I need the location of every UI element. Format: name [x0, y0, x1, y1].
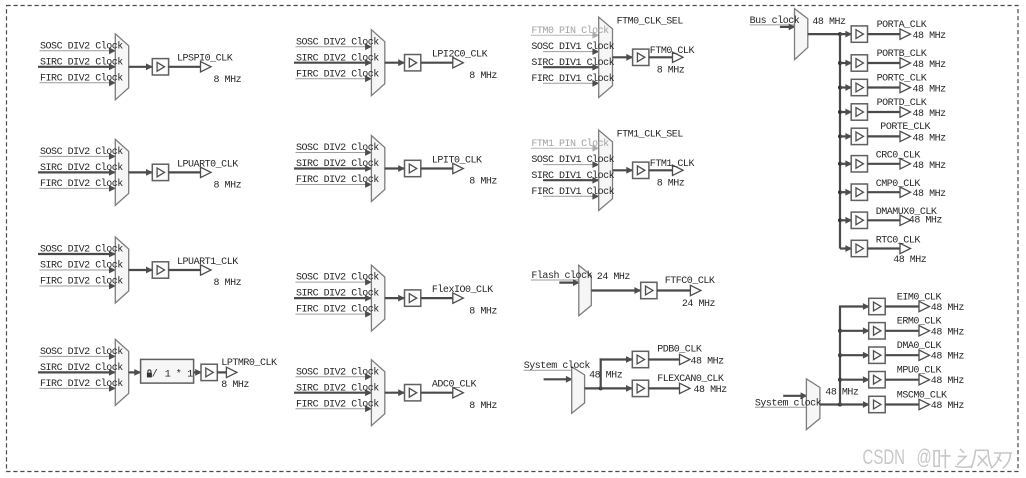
wire LPUART1_CLK gate output arrow [169, 265, 211, 275]
mux System clock distribution (bottom right) [806, 379, 820, 430]
svg-text:FIRC DIV2 Clock: FIRC DIV2 Clock [296, 398, 379, 410]
clock gate buffer of EIM0_CLK [869, 298, 886, 314]
net SIRC DIV1 Clock input wire of FTM1 mux [543, 177, 599, 184]
wire branch up to PDB0 [600, 356, 633, 389]
mux LPI2C0_CLK clock select [371, 30, 384, 96]
svg-text:48 MHz: 48 MHz [913, 133, 947, 144]
wire FlexIO0_CLK mux output to gate [385, 295, 405, 302]
svg-text:PDB0_CLK: PDB0_CLK [657, 345, 702, 356]
svg-text:PORTD_CLK: PORTD_CLK [877, 98, 927, 109]
svg-text:48 MHz: 48 MHz [913, 189, 947, 200]
junction bus rail / PORTB_CLK [838, 61, 842, 65]
wire LPIT0_CLK gate output arrow [421, 163, 464, 173]
net SIRC DIV2 Clock input wire of LPUART1_CLK mux [40, 267, 116, 274]
svg-text:48 MHz: 48 MHz [931, 376, 965, 387]
wire rail stub to CRC0_CLK gate [840, 160, 852, 167]
lock icon inside divider [147, 370, 152, 377]
net FIRC DIV2 Clock input wire of LPI2C0_CLK mux [296, 75, 372, 82]
junction bus rail / CMP0_CLK [838, 190, 842, 194]
svg-text:FIRC DIV2 Clock: FIRC DIV2 Clock [40, 276, 123, 288]
wire bus mux output to vertical rail [808, 33, 840, 35]
svg-text:48 MHz: 48 MHz [812, 17, 846, 28]
svg-text:SOSC DIV1 Clock: SOSC DIV1 Clock [531, 41, 614, 53]
junction bus rail / PORTC_CLK [838, 86, 842, 90]
net FIRC DIV2 Clock input wire of LPUART1_CLK mux [40, 283, 116, 290]
svg-text:SIRC DIV2 Clock: SIRC DIV2 Clock [296, 382, 379, 394]
svg-text:48 MHz: 48 MHz [913, 161, 947, 172]
junction system rail / MSCM0 [838, 403, 842, 407]
wire PORTD_CLK gate output arrow [868, 107, 911, 117]
net System clock input wire (bottom-right block) [755, 392, 808, 407]
svg-text:FIRC DIV1 Clock: FIRC DIV1 Clock [531, 186, 614, 198]
svg-text:48 MHz: 48 MHz [589, 370, 623, 381]
svg-text:PORTC_CLK: PORTC_CLK [877, 73, 927, 84]
svg-text:SIRC DIV2 Clock: SIRC DIV2 Clock [40, 260, 123, 272]
svg-text:8 MHz: 8 MHz [469, 71, 497, 82]
wire bus clock vertical rail [839, 34, 841, 248]
svg-text:Bus clock: Bus clock [750, 15, 800, 27]
clock gate buffer of DMAMUX0_CLK [851, 212, 867, 228]
svg-text:SOSC DIV2 Clock: SOSC DIV2 Clock [40, 146, 123, 158]
wire rail stub to PORTB_CLK gate [840, 60, 852, 67]
svg-text:FIRC DIV2 Clock: FIRC DIV2 Clock [40, 378, 123, 390]
wire PORTC_CLK gate output arrow [868, 82, 911, 92]
svg-text:48 MHz: 48 MHz [691, 356, 725, 367]
svg-text:48 MHz: 48 MHz [913, 60, 947, 71]
wire rail stub to PORTA_CLK gate [840, 31, 852, 38]
svg-text:SIRC DIV2 Clock: SIRC DIV2 Clock [40, 362, 123, 374]
clock gate buffer of CMP0_CLK [851, 184, 867, 200]
net SOSC DIV1 Clock input wire of FTM1 mux [543, 161, 599, 168]
svg-text:RTC0_CLK: RTC0_CLK [876, 236, 921, 247]
svg-text:SOSC DIV2 Clock: SOSC DIV2 Clock [40, 346, 123, 358]
svg-text:CSDN: CSDN [863, 444, 905, 468]
svg-text:PORTA_CLK: PORTA_CLK [877, 20, 927, 31]
svg-text:FTFC0_CLK: FTFC0_CLK [665, 276, 715, 287]
svg-text:LPI2C0_CLK: LPI2C0_CLK [432, 50, 488, 61]
wire EIM0_CLK gate output arrow [885, 301, 929, 311]
wire divider to LPTMR0 gate [194, 369, 202, 376]
svg-text:24 MHz: 24 MHz [682, 299, 716, 310]
svg-text:48 MHz: 48 MHz [931, 352, 965, 363]
net SOSC DIV2 Clock input wire of LPTMR0_CLK mux [40, 353, 116, 360]
wire LPSPI0_CLK mux output to gate [129, 63, 153, 70]
junction node system clock branch [599, 386, 603, 390]
clock gate buffer of RTC0_CLK [851, 240, 867, 256]
clock gate buffer of DMA0_CLK [869, 347, 886, 363]
svg-text:EIM0_CLK: EIM0_CLK [897, 292, 942, 303]
net SOSC DIV2 Clock input wire of LPSPI0_CLK mux [40, 47, 116, 54]
svg-text:FIRC DIV2 Clock: FIRC DIV2 Clock [296, 304, 379, 316]
wire PORTB_CLK gate output arrow [868, 58, 911, 68]
svg-text:8 MHz: 8 MHz [657, 178, 685, 189]
svg-text:48 MHz: 48 MHz [931, 327, 965, 338]
net FIRC DIV2 Clock input wire of FlexIO0_CLK mux [296, 311, 372, 318]
svg-text:8 MHz: 8 MHz [221, 380, 249, 391]
net SOSC DIV2 Clock input wire of LPIT0_CLK mux [296, 149, 372, 156]
svg-text:8 MHz: 8 MHz [657, 65, 685, 76]
svg-text:PORTE_CLK: PORTE_CLK [880, 122, 930, 133]
svg-text:FLEXCAN0_CLK: FLEXCAN0_CLK [657, 374, 724, 385]
svg-text:SOSC DIV2 Clock: SOSC DIV2 Clock [296, 36, 379, 48]
mux ADC0_CLK clock select [371, 360, 384, 426]
clock gate buffer of PDB0 [632, 351, 648, 367]
net FTM0 PIN Clock input wire (inactive gray) [531, 32, 599, 39]
svg-text:@: @ [917, 444, 932, 468]
wire LPTMR0 mux output to divider [129, 369, 141, 376]
clock gate buffer of LPUART0_CLK [152, 164, 168, 180]
svg-text:FlexIO0_CLK: FlexIO0_CLK [432, 284, 493, 296]
wire system mux output to junction [585, 387, 601, 389]
svg-text:48 MHz: 48 MHz [825, 388, 859, 399]
junction system rail / ERM0_CLK [838, 329, 842, 333]
svg-text:ADC0_CLK: ADC0_CLK [432, 380, 477, 391]
clock gate buffer of PORTC_CLK [851, 79, 867, 95]
wire FTM0 gate output arrow [649, 52, 683, 62]
net SIRC DIV2 Clock input wire of LPTMR0_CLK mux [38, 369, 116, 376]
wire rail stub to DMAMUX0_CLK gate [840, 217, 852, 224]
wire MSCM0_CLK gate output arrow [885, 399, 929, 409]
wire rail stub to MSCM0_CLK gate [839, 401, 870, 408]
wire FTM1 gate output arrow [649, 165, 683, 175]
mux LPUART0_CLK clock select [115, 139, 128, 205]
net FIRC DIV2 Clock input wire of LPIT0_CLK mux [296, 181, 372, 188]
svg-text:LPTMR0_CLK: LPTMR0_CLK [221, 358, 277, 369]
mux FTM0 clock select (4 inputs) [599, 17, 613, 97]
svg-text:FIRC DIV2 Clock: FIRC DIV2 Clock [296, 174, 379, 186]
wire PORTA_CLK gate output arrow [868, 29, 911, 39]
wire bottom system mux output to rail [820, 403, 840, 405]
clock gate buffer of FTM0 [633, 49, 649, 65]
junction system rail / DMA0_CLK [838, 353, 842, 357]
net SIRC DIV2 Clock input wire of LPIT0_CLK mux [294, 165, 372, 172]
wire CRC0_CLK gate output arrow [868, 159, 911, 169]
svg-text:FIRC DIV1 Clock: FIRC DIV1 Clock [531, 73, 614, 85]
wire LPI2C0_CLK gate output arrow [421, 58, 464, 68]
clock gate buffer of LPIT0_CLK [405, 160, 421, 176]
svg-text:FTM1 PIN Clock: FTM1 PIN Clock [531, 138, 609, 150]
wire rail stub to CMP0_CLK gate [840, 189, 852, 196]
clock gate buffer of MSCM0_CLK [869, 396, 886, 412]
svg-text:SOSC DIV2 Clock: SOSC DIV2 Clock [296, 142, 379, 154]
svg-text:SIRC DIV2 Clock: SIRC DIV2 Clock [296, 158, 379, 170]
junction bus rail / PORTD_CLK [838, 110, 842, 114]
mux Bus clock distribution [795, 9, 808, 60]
clock gate buffer of PORTA_CLK [851, 26, 867, 42]
svg-text:Flash clock: Flash clock [531, 270, 592, 282]
svg-text:8 MHz: 8 MHz [214, 278, 242, 289]
net SOSC DIV2 Clock input wire of LPI2C0_CLK mux [296, 43, 372, 50]
value / 1 * 1 divider factors [152, 369, 193, 381]
svg-text:SIRC DIV2 Clock: SIRC DIV2 Clock [296, 288, 379, 300]
wire LPI2C0_CLK mux output to gate [385, 59, 405, 66]
svg-text:PORTB_CLK: PORTB_CLK [877, 49, 927, 60]
svg-text:48 MHz: 48 MHz [694, 385, 728, 396]
svg-text:FIRC DIV2 Clock: FIRC DIV2 Clock [296, 68, 379, 80]
wire LPUART0_CLK gate output arrow [169, 167, 211, 177]
wire LPUART1_CLK mux output to gate [129, 267, 153, 274]
svg-text:48 MHz: 48 MHz [893, 255, 927, 266]
clock gate buffer of LPUART1_CLK [152, 262, 168, 278]
clock gate buffer of PORTB_CLK [851, 55, 867, 71]
net FIRC DIV1 Clock input wire of FTM0 mux [543, 80, 599, 87]
clock gate buffer of FlexIO0_CLK [405, 290, 421, 306]
svg-text:SOSC DIV2 Clock: SOSC DIV2 Clock [40, 244, 123, 256]
svg-text:LPUART0_CLK: LPUART0_CLK [177, 159, 238, 170]
net SIRC DIV2 Clock input wire of ADC0_CLK mux [294, 389, 372, 396]
svg-text:48 MHz: 48 MHz [913, 85, 947, 96]
net SOSC DIV2 Clock input wire of FlexIO0_CLK mux [296, 279, 372, 286]
clock gate buffer of LPTMR0 [201, 364, 217, 380]
wire LPUART0_CLK mux output to gate [129, 169, 153, 176]
svg-text:SOSC DIV2 Clock: SOSC DIV2 Clock [40, 40, 123, 52]
mux LPSPI0_CLK clock select [115, 34, 128, 100]
net Flash clock input wire [531, 279, 580, 286]
junction bus rail / PORTA [838, 32, 842, 36]
svg-text:8 MHz: 8 MHz [469, 177, 497, 188]
svg-text:8 MHz: 8 MHz [469, 306, 497, 317]
svg-text:DMA0_CLK: DMA0_CLK [897, 341, 942, 352]
net SOSC DIV2 Clock input wire of ADC0_CLK mux [296, 373, 372, 380]
wire DMAMUX0_CLK gate output arrow [868, 215, 911, 225]
mux System clock (PDB/FLEXCAN) [572, 367, 585, 414]
wire rail stub to ERM0_CLK gate [839, 327, 870, 334]
net FIRC DIV2 Clock input wire of ADC0_CLK mux [296, 405, 372, 412]
svg-text:1: 1 [165, 370, 171, 381]
net FIRC DIV1 Clock input wire of FTM1 mux [543, 193, 599, 200]
svg-text:SOSC DIV1 Clock: SOSC DIV1 Clock [531, 154, 614, 166]
svg-text:LPIT0_CLK: LPIT0_CLK [432, 155, 482, 166]
wire FTM1 mux output to gate [613, 167, 634, 174]
svg-text:48 MHz: 48 MHz [909, 216, 943, 227]
wire branch to FLEXCAN0 [601, 385, 633, 392]
svg-text:48 MHz: 48 MHz [913, 31, 947, 42]
net SIRC DIV1 Clock input wire of FTM0 mux [543, 64, 599, 71]
clock gate buffer of LPSPI0_CLK [152, 59, 168, 75]
svg-text:ERM0_CLK: ERM0_CLK [897, 317, 942, 328]
wire FLEXCAN0 gate output arrow [649, 383, 690, 393]
watermark Chinese characters 叶之风刃 [934, 449, 1012, 468]
wire rail stub to PORTE_CLK gate [840, 133, 852, 140]
svg-text:*: * [176, 369, 182, 381]
svg-text:MSCM0_CLK: MSCM0_CLK [897, 390, 947, 401]
svg-text:MPU0_CLK: MPU0_CLK [897, 366, 942, 377]
net SOSC DIV2 Clock input wire of LPUART1_CLK mux [38, 251, 116, 258]
clock gate buffer of CRC0_CLK [851, 156, 867, 172]
clock gate buffer of PORTE_CLK [851, 128, 867, 144]
mux LPIT0_CLK clock select [371, 136, 384, 202]
wire ADC0_CLK gate output arrow [421, 388, 464, 398]
svg-text:48 MHz: 48 MHz [913, 109, 947, 120]
wire LPIT0_CLK mux output to gate [385, 165, 405, 172]
net Bus clock input wire [750, 24, 796, 31]
svg-text:8 MHz: 8 MHz [214, 181, 242, 192]
wire rail stub to DMA0_CLK gate [839, 352, 870, 359]
wire DMA0_CLK gate output arrow [885, 350, 929, 360]
mux FTM1 clock select (4 inputs) [599, 130, 613, 210]
clock gate buffer of PORTD_CLK [851, 104, 867, 120]
wire rail stub to PORTC_CLK gate [840, 84, 852, 91]
svg-text:FTM0_CLK_SEL: FTM0_CLK_SEL [617, 17, 684, 28]
wire rail stub to MPU0_CLK gate [839, 376, 870, 383]
svg-text:SIRC DIV2 Clock: SIRC DIV2 Clock [40, 162, 123, 174]
net SOSC DIV1 Clock input wire of FTM0 mux [543, 48, 599, 55]
svg-text:LPUART1_CLK: LPUART1_CLK [177, 257, 238, 268]
wire RTC0_CLK gate output arrow [868, 243, 911, 253]
wire FTFC0 gate output arrow [657, 285, 701, 295]
mux LPTMR0_CLK clock select [115, 339, 128, 405]
svg-text:24 MHz: 24 MHz [597, 272, 631, 283]
svg-text:8 MHz: 8 MHz [214, 75, 242, 86]
mux LPUART1_CLK clock select [115, 237, 128, 303]
net FIRC DIV2 Clock input wire of LPSPI0_CLK mux [40, 79, 116, 86]
clock gate buffer of ADC0_CLK [405, 385, 421, 401]
clock gate buffer of FLEXCAN0 [632, 380, 648, 396]
clock gate buffer of MPU0_CLK [869, 372, 886, 388]
wire flash mux output to gate [591, 287, 641, 294]
junction bus rail / CRC0_CLK [838, 162, 842, 166]
svg-text:1: 1 [187, 370, 193, 381]
net SOSC DIV2 Clock input wire of LPUART0_CLK mux [40, 153, 116, 160]
net FIRC DIV2 Clock input wire of LPUART0_CLK mux [40, 185, 116, 192]
svg-text:SOSC DIV2 Clock: SOSC DIV2 Clock [296, 272, 379, 284]
svg-text:48 MHz: 48 MHz [931, 401, 965, 412]
svg-text:FTM1_CLK_SEL: FTM1_CLK_SEL [617, 130, 684, 141]
mux FTFC0 flash clock [579, 265, 592, 315]
net SIRC DIV2 Clock input wire of LPSPI0_CLK mux [38, 63, 116, 70]
wire rail stub to PORTD_CLK gate [840, 109, 852, 116]
svg-text:LPSPI0_CLK: LPSPI0_CLK [177, 54, 233, 65]
svg-text:FIRC DIV2 Clock: FIRC DIV2 Clock [40, 72, 123, 84]
svg-text:SIRC DIV2 Clock: SIRC DIV2 Clock [296, 52, 379, 64]
svg-text:SIRC DIV1 Clock: SIRC DIV1 Clock [531, 170, 614, 182]
svg-text:/: / [152, 369, 158, 381]
svg-text:System clock: System clock [524, 360, 591, 372]
svg-text:SOSC DIV2 Clock: SOSC DIV2 Clock [296, 366, 379, 378]
clock gate buffer of FTM1 [633, 162, 649, 178]
wire rail stub to EIM0_CLK gate [839, 303, 870, 310]
net FTM1 PIN Clock input wire (inactive gray) [531, 145, 599, 152]
clock gate buffer of LPI2C0_CLK [405, 55, 421, 71]
wire MPU0_CLK gate output arrow [885, 375, 929, 385]
wire FTM0 mux output to gate [613, 54, 634, 61]
svg-text:FTM0 PIN Clock: FTM0 PIN Clock [531, 25, 609, 37]
wire LPTMR0 gate output arrow [217, 367, 237, 377]
net FIRC DIV2 Clock input wire of LPTMR0_CLK mux [40, 385, 116, 392]
wire system clock vertical rail [839, 307, 841, 405]
svg-text:System clock: System clock [755, 398, 822, 410]
wire FlexIO0_CLK gate output arrow [421, 293, 464, 303]
svg-text:FIRC DIV2 Clock: FIRC DIV2 Clock [40, 178, 123, 190]
svg-text:SIRC DIV2 Clock: SIRC DIV2 Clock [40, 56, 123, 68]
wire PDB0 gate output arrow [649, 354, 690, 364]
net SIRC DIV2 Clock input wire of LPI2C0_CLK mux [294, 59, 372, 66]
net SIRC DIV2 Clock input wire of FlexIO0_CLK mux [294, 295, 372, 302]
svg-text:FTM0_CLK: FTM0_CLK [650, 46, 695, 57]
wire CMP0_CLK gate output arrow [868, 187, 911, 197]
junction bus rail / PORTE_CLK [838, 134, 842, 138]
wire rail stub to RTC0_CLK gate [840, 245, 852, 252]
junction system rail / MPU0_CLK [838, 378, 842, 382]
svg-text:8 MHz: 8 MHz [469, 401, 497, 412]
junction bus rail / DMAMUX0_CLK [838, 218, 842, 222]
svg-text:48 MHz: 48 MHz [931, 303, 965, 314]
wire PORTE_CLK gate output arrow [868, 131, 911, 141]
net System clock input wire (PDB/FLEXCAN block) [524, 370, 573, 382]
mux FlexIO0_CLK clock select [371, 265, 384, 331]
wire ERM0_CLK gate output arrow [885, 326, 929, 336]
svg-text:FTM1_CLK: FTM1_CLK [650, 159, 695, 170]
clock gate buffer of FTFC0 [641, 282, 657, 298]
divider block "/ 1 * 1" of LPTMR0 [141, 359, 194, 383]
clock gate buffer of ERM0_CLK [869, 323, 886, 339]
wire ADC0_CLK mux output to gate [385, 389, 405, 396]
svg-text:SIRC DIV1 Clock: SIRC DIV1 Clock [531, 57, 614, 69]
wire LPSPI0_CLK gate output arrow [169, 62, 211, 72]
net SIRC DIV2 Clock input wire of LPUART0_CLK mux [38, 169, 116, 176]
